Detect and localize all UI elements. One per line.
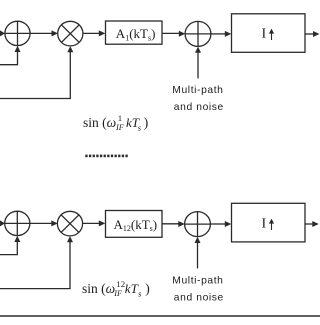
- wire A12 to adder S4: [162, 221, 185, 227]
- svg-text:A12(kTs): A12(kTs): [114, 217, 158, 233]
- label multipath noise row1: [172, 85, 224, 113]
- wire M2 to block A12: [83, 220, 106, 226]
- block I2 (interpolator): [232, 203, 306, 242]
- wire S2 to block I1: [211, 31, 231, 37]
- wire input arrow row2: [0, 220, 5, 226]
- multiplier M2: [57, 211, 82, 236]
- svg-text:1: 1: [118, 113, 122, 123]
- wire feedback into S1 row1: [0, 46, 21, 65]
- block A1: [106, 21, 163, 44]
- label A1(kTs): [116, 26, 156, 42]
- label sin oscillator row2: [82, 279, 150, 299]
- wire S1 to M1: [30, 30, 58, 36]
- wire input arrow row1: [0, 30, 5, 36]
- svg-text:I: I: [262, 217, 267, 232]
- label multipath noise row2: [172, 275, 224, 303]
- svg-text:and noise: and noise: [174, 102, 224, 113]
- wire oscillator feed into M1 row1: [0, 46, 73, 98]
- wire M1 to block A1: [83, 30, 105, 36]
- svg-text:Multi-path: Multi-path: [172, 85, 223, 96]
- adder S4: [185, 212, 211, 237]
- svg-text:I: I: [262, 27, 267, 42]
- wire oscillator feed into M2 row2: [0, 236, 73, 289]
- svg-text:A1(kTs): A1(kTs): [116, 26, 156, 42]
- svg-text:): ): [145, 281, 150, 296]
- svg-text:IF: IF: [113, 289, 123, 298]
- adder S3: [5, 211, 30, 235]
- svg-text:s: s: [138, 289, 142, 299]
- dotted continuation line: [85, 155, 127, 158]
- svg-text:IF: IF: [115, 123, 125, 132]
- svg-text:sin (ω: sin (ω: [83, 115, 116, 130]
- wire S4 to block I2: [210, 221, 231, 227]
- adder S2: [185, 21, 211, 46]
- bottom rule of figure: [0, 315, 320, 317]
- wire noise feed into S2 row1: [195, 47, 201, 79]
- wire output arrow row2: [305, 221, 319, 227]
- label A12(kTs): [114, 217, 158, 233]
- block I1 (interpolator): [232, 14, 306, 53]
- wire A1 to adder S2: [162, 31, 185, 37]
- svg-text:sin (ω: sin (ω: [82, 281, 115, 296]
- label sin oscillator row1: [83, 113, 148, 133]
- wire output arrow row1: [305, 31, 320, 37]
- label I-up row2: [262, 217, 275, 232]
- svg-text:kT: kT: [125, 281, 139, 296]
- block A12: [106, 211, 163, 238]
- svg-text:s: s: [138, 123, 142, 133]
- label I-up row1: [262, 27, 275, 42]
- wire noise feed into S4 row2: [195, 237, 201, 269]
- svg-text:Multi-path: Multi-path: [172, 275, 223, 286]
- wire S3 to M2: [30, 220, 58, 226]
- multiplier M1: [58, 21, 83, 46]
- svg-text:12: 12: [116, 279, 125, 289]
- wire feedback into S3 row2: [0, 236, 20, 255]
- adder S1: [5, 21, 30, 45]
- svg-text:and noise: and noise: [174, 292, 224, 303]
- svg-text:): ): [144, 115, 149, 130]
